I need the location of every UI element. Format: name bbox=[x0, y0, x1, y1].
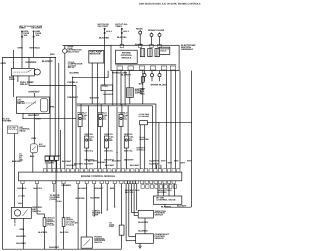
svg-text:SPARK PLUGS: SPARK PLUGS bbox=[151, 83, 168, 86]
svg-text:RED/YEL: RED/YEL bbox=[104, 133, 114, 136]
svg-text:BLU/ORN: BLU/ORN bbox=[138, 221, 148, 224]
svg-text:ENG 1: ENG 1 bbox=[123, 30, 129, 33]
svg-text:No1: No1 bbox=[103, 117, 107, 120]
svg-text:SWITCH: SWITCH bbox=[32, 210, 41, 213]
svg-text:BLU/RED: BLU/RED bbox=[90, 197, 100, 200]
svg-text:RESISTOR: RESISTOR bbox=[90, 52, 101, 55]
svg-text:GRN: GRN bbox=[35, 118, 41, 121]
svg-text:GRN: GRN bbox=[19, 228, 24, 231]
svg-text:GRN: GRN bbox=[31, 137, 36, 140]
svg-text:BLK/YEL: BLK/YEL bbox=[34, 187, 43, 190]
svg-text:WHT: WHT bbox=[168, 162, 173, 165]
svg-text:LT GRN: LT GRN bbox=[18, 195, 25, 198]
svg-text:ECM 1: ECM 1 bbox=[106, 30, 112, 33]
svg-text:BLK/WHT: BLK/WHT bbox=[67, 164, 77, 167]
svg-text:BLK/WHT: BLK/WHT bbox=[16, 242, 26, 245]
svg-text:BLK/YEL: BLK/YEL bbox=[117, 36, 127, 39]
svg-text:PPL: PPL bbox=[50, 106, 55, 109]
svg-text:A/C SW: A/C SW bbox=[8, 127, 15, 130]
svg-text:BLU/RED: BLU/RED bbox=[70, 72, 80, 75]
svg-text:SPARK PLUGS: SPARK PLUGS bbox=[148, 29, 165, 32]
svg-text:BLK/RED: BLK/RED bbox=[99, 37, 109, 40]
svg-text:BLK/YEL: BLK/YEL bbox=[104, 150, 113, 153]
svg-text:PNK/BLU: PNK/BLU bbox=[17, 187, 27, 190]
svg-text:15A: 15A bbox=[36, 34, 40, 37]
svg-text:C2 (GRY): C2 (GRY) bbox=[45, 162, 55, 165]
svg-text:RELAY: RELAY bbox=[17, 102, 25, 105]
svg-text:LAMP: LAMP bbox=[92, 213, 99, 216]
svg-text:MODULE: MODULE bbox=[121, 57, 131, 60]
svg-text:BLK/WHT: BLK/WHT bbox=[88, 160, 98, 163]
svg-text:BLK/WHT: BLK/WHT bbox=[12, 160, 22, 163]
svg-text:SYSTEM: SYSTEM bbox=[2, 119, 11, 122]
svg-text:BLK/WHT: BLK/WHT bbox=[90, 97, 100, 100]
svg-text:SUPPR: SUPPR bbox=[135, 92, 143, 95]
svg-text:TVSV: TVSV bbox=[102, 85, 108, 88]
svg-text:ASSEMBLY: ASSEMBLY bbox=[181, 48, 194, 51]
svg-text:WHT/BLU: WHT/BLU bbox=[137, 148, 146, 151]
svg-text:ENGINE CONTROL MODULE: ENGINE CONTROL MODULE bbox=[81, 175, 116, 178]
svg-text:GRN/YEL: GRN/YEL bbox=[76, 197, 86, 200]
svg-text:(TACH): (TACH) bbox=[50, 198, 57, 201]
svg-text:HEAD: HEAD bbox=[19, 130, 25, 133]
svg-text:BLK/RED: BLK/RED bbox=[16, 235, 26, 238]
svg-text:RELAY BOX: RELAY BOX bbox=[67, 50, 79, 53]
svg-text:SWITCH: SWITCH bbox=[94, 241, 102, 244]
svg-text:OR START: OR START bbox=[31, 27, 42, 30]
svg-text:TIMES: TIMES bbox=[115, 25, 122, 28]
svg-text:RELAY: RELAY bbox=[20, 83, 28, 86]
svg-text:ORN: ORN bbox=[18, 46, 23, 49]
svg-text:WHT/BLU: WHT/BLU bbox=[30, 46, 41, 49]
svg-text:GRN/RED: GRN/RED bbox=[61, 184, 71, 187]
svg-text:LINK: LINK bbox=[109, 225, 114, 228]
svg-text:BLK/RED: BLK/RED bbox=[38, 231, 48, 234]
svg-text:No2: No2 bbox=[129, 139, 133, 142]
svg-text:SWITCH: SWITCH bbox=[155, 214, 164, 217]
svg-text:BLU/RED: BLU/RED bbox=[138, 230, 148, 233]
svg-text:PNK/WHT: PNK/WHT bbox=[67, 96, 78, 99]
svg-text:BLK/YEL: BLK/YEL bbox=[85, 150, 94, 153]
svg-text:RED/YEL: RED/YEL bbox=[124, 133, 134, 136]
svg-text:ORN: ORN bbox=[0, 62, 6, 65]
svg-text:BLK/YEL: BLK/YEL bbox=[135, 43, 144, 46]
svg-text:RES: RES bbox=[139, 82, 144, 85]
svg-text:BLK/WHT: BLK/WHT bbox=[105, 164, 115, 167]
svg-text:No2: No2 bbox=[89, 139, 93, 142]
svg-text:No1: No1 bbox=[83, 117, 87, 120]
svg-text:No1: No1 bbox=[124, 117, 128, 120]
svg-text:CONTROL VALVE: CONTROL VALVE bbox=[157, 199, 176, 202]
svg-text:BLU/WHT: BLU/WHT bbox=[149, 160, 159, 163]
svg-text:8 PULSE: 8 PULSE bbox=[66, 223, 75, 226]
svg-text:BLK/WHT: BLK/WHT bbox=[98, 161, 108, 164]
svg-text:BLK/WHT: BLK/WHT bbox=[130, 164, 140, 167]
svg-text:WHT/RED: WHT/RED bbox=[157, 191, 167, 194]
svg-text:BLK/WHT: BLK/WHT bbox=[42, 60, 53, 63]
svg-text:BRN/WHT: BRN/WHT bbox=[124, 159, 134, 162]
svg-text:BLK/WHT: BLK/WHT bbox=[84, 162, 94, 165]
svg-text:1994 ISUZU RODEO 3.2L V6 SOHC: 1994 ISUZU RODEO 3.2L V6 SOHC ENGINE CON… bbox=[139, 2, 201, 5]
svg-text:BLK/YEL: BLK/YEL bbox=[60, 231, 69, 234]
svg-text:SENSOR: SENSOR bbox=[155, 237, 164, 240]
svg-text:WHT: WHT bbox=[181, 162, 186, 165]
svg-text:BLK/WHT: BLK/WHT bbox=[112, 160, 122, 163]
svg-text:RELAY: RELAY bbox=[68, 66, 75, 69]
svg-text:BLK/WHT: BLK/WHT bbox=[62, 160, 72, 163]
svg-text:WHT: WHT bbox=[174, 159, 179, 162]
svg-text:WHT: WHT bbox=[161, 159, 166, 162]
svg-text:NOISE: NOISE bbox=[136, 27, 143, 30]
svg-text:BLK/WHT: BLK/WHT bbox=[103, 93, 113, 96]
svg-text:GRN/WHT: GRN/WHT bbox=[94, 187, 104, 190]
svg-text:BLK/YEL: BLK/YEL bbox=[124, 150, 133, 153]
svg-text:BLU/WHT: BLU/WHT bbox=[121, 74, 131, 77]
svg-text:BLK/WHT: BLK/WHT bbox=[177, 204, 187, 207]
svg-text:15A: 15A bbox=[24, 34, 28, 37]
svg-text:BLU/RED: BLU/RED bbox=[149, 163, 159, 166]
svg-text:RED/YEL: RED/YEL bbox=[85, 133, 95, 136]
svg-text:COILS: COILS bbox=[160, 50, 167, 53]
svg-text:No2: No2 bbox=[109, 139, 113, 142]
svg-text:PNK: PNK bbox=[50, 53, 55, 56]
svg-text:AMPLIFIER: AMPLIFIER bbox=[139, 138, 149, 141]
svg-text:4 PULSE: 4 PULSE bbox=[47, 224, 56, 227]
svg-text:DIODE: DIODE bbox=[39, 145, 46, 148]
svg-text:RED: RED bbox=[18, 202, 23, 205]
svg-text:BLU/WHT: BLU/WHT bbox=[78, 187, 88, 190]
svg-text:TIMES: TIMES bbox=[19, 27, 26, 30]
svg-text:BLK/WHT: BLK/WHT bbox=[49, 246, 59, 249]
svg-text:BLU: BLU bbox=[30, 155, 35, 158]
svg-text:OR START: OR START bbox=[98, 25, 109, 28]
svg-text:OF ENGINE: OF ENGINE bbox=[139, 115, 150, 118]
svg-text:GRN/RED: GRN/RED bbox=[25, 61, 36, 64]
svg-text:BRN: BRN bbox=[110, 187, 115, 190]
svg-text:WHT: WHT bbox=[187, 159, 192, 162]
